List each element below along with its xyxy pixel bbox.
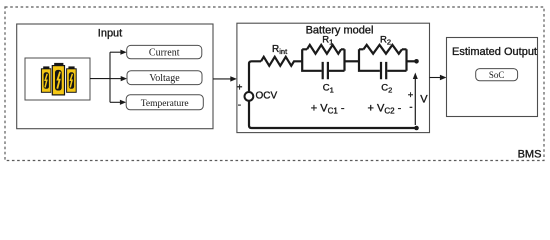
svg-text:V: V (420, 93, 428, 105)
wire left rail lower (249, 101, 417, 128)
arrow to Voltage (110, 76, 127, 81)
arrow to Current (110, 50, 127, 55)
svg-text:Input: Input (98, 28, 122, 40)
svg-text:Battery model: Battery model (306, 25, 374, 37)
capacitor C2 (381, 62, 386, 79)
BMS system boundary (dashed) (5, 7, 544, 161)
SoC box (476, 69, 518, 81)
node positive terminal (414, 59, 419, 64)
RC pair 1 loop wires (302, 49, 344, 71)
RC pair 2 loop wires (359, 49, 407, 71)
Temperature box (126, 95, 203, 110)
Voltage box (127, 71, 202, 85)
svg-text:BMS: BMS (518, 148, 542, 160)
resistor R1 (307, 45, 341, 54)
wire RC2 to positive terminal (407, 60, 417, 62)
svg-text:-: - (238, 100, 241, 111)
voltage source OCV (245, 92, 254, 101)
Estimated Output block (447, 38, 538, 117)
wire battery to branch (90, 78, 110, 80)
svg-text:Current: Current (149, 48, 180, 59)
Battery model block (237, 23, 430, 132)
svg-text:SoC: SoC (489, 70, 505, 80)
Input block (17, 24, 213, 129)
arrow to Temperature (110, 100, 126, 105)
svg-text:+: + (408, 90, 414, 101)
battery cell left (41, 66, 51, 92)
V annotation arrow (413, 73, 418, 126)
svg-text:Voltage: Voltage (149, 73, 180, 84)
wire left rail upper (249, 61, 261, 92)
battery pack container (25, 58, 90, 100)
svg-text:+: + (237, 83, 243, 94)
arrow Input to Battery model (213, 76, 237, 81)
svg-text:Estimated Output: Estimated Output (452, 46, 537, 58)
node negative terminal (414, 126, 419, 131)
battery cell center (51, 63, 65, 96)
resistor R2 (364, 45, 403, 54)
arrow Battery model to Estimated Output (430, 75, 447, 80)
svg-text:Temperature: Temperature (141, 99, 189, 109)
wire RC1 to RC2 (345, 60, 359, 62)
svg-text:-: - (409, 102, 412, 113)
Current box (127, 45, 202, 58)
capacitor C1 (323, 62, 328, 79)
resistor R_int (261, 57, 302, 66)
svg-text:OCV: OCV (256, 91, 278, 102)
branch bus vertical wire (109, 52, 111, 102)
battery cell right (67, 66, 77, 92)
